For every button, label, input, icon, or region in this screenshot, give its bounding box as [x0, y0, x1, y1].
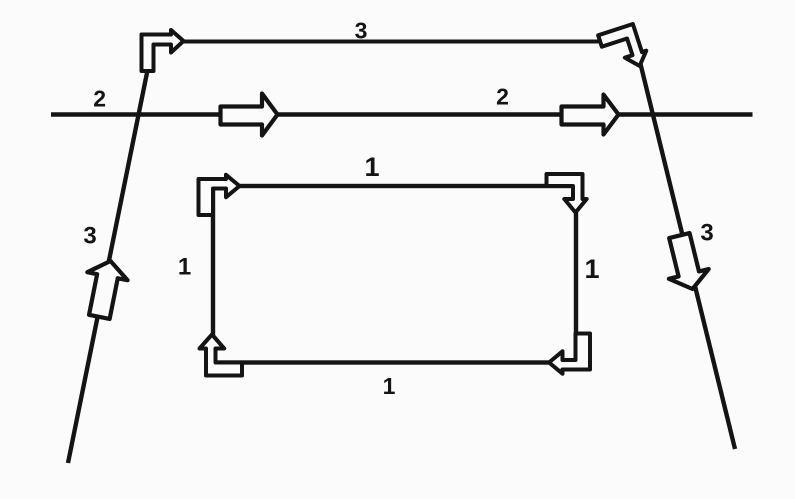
svg-text:1: 1 — [584, 254, 599, 284]
svg-text:1: 1 — [364, 152, 379, 182]
svg-text:2: 2 — [496, 84, 509, 110]
svg-text:1: 1 — [383, 373, 396, 399]
svg-text:3: 3 — [83, 223, 96, 250]
svg-text:2: 2 — [93, 86, 106, 112]
svg-text:3: 3 — [700, 219, 713, 246]
svg-text:1: 1 — [178, 254, 191, 281]
svg-text:3: 3 — [355, 18, 368, 44]
